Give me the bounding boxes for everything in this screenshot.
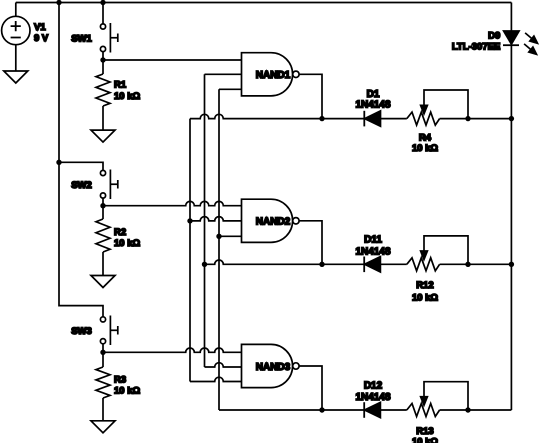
svg-text:10 kΩ: 10 kΩ [412,143,438,154]
svg-text:10 kΩ: 10 kΩ [114,386,140,397]
wire: NAND1 output to row 1 [299,74,322,118]
svg-text:R2: R2 [114,227,126,238]
diode D1 1N4148 [355,89,390,126]
wire: row 3 left [219,409,364,411]
wire: NAND2 input C from x=219 [219,235,242,237]
wire: vertical net NAND2 output (x=204.5) [204,74,206,367]
node: junction x=219 / NAND2 input C [216,234,221,239]
svg-text:10 kΩ: 10 kΩ [114,91,140,102]
wire: NAND3 input C from x=190 with hop [190,377,242,381]
svg-text:1N4148: 1N4148 [355,246,390,257]
svg-text:NAND1: NAND1 [256,70,291,81]
node: SW3 / R3 junction [100,350,105,355]
node: junction NAND3 output / row 3 [319,407,324,412]
svg-text:10 kΩ: 10 kΩ [412,292,438,303]
voltage source V1 9V [2,3,49,72]
wire: R13 to right bus [440,409,512,411]
wire: NAND2 output to row 2 [299,221,322,264]
wire: left bus from top rail down to SW3 branch [59,3,103,317]
svg-text:SW1: SW1 [71,33,92,44]
svg-text:R1: R1 [114,80,127,91]
wire: NAND3 input B from x=204.5 with hop [205,363,242,367]
node: junction row 2 / right bus [509,262,514,267]
svg-text:R3: R3 [114,375,126,386]
op-amp NAND2 gate body [242,199,300,242]
svg-text:SW3: SW3 [71,326,92,337]
wire: NAND1 input B from x=204.5 [205,73,242,75]
resistor R2 10k [96,206,140,276]
svg-text:R12: R12 [416,280,433,291]
wire: R4 to right bus [440,118,512,120]
op-amp NAND3 gate body [242,344,300,387]
svg-text:NAND3: NAND3 [256,362,291,373]
wire: NAND3 output to row 3 [299,366,322,410]
svg-text:D12: D12 [364,380,383,391]
resistor R3 10k [96,352,140,421]
svg-text:10 kΩ: 10 kΩ [114,238,140,249]
node: junction NAND2 output / row 2 [319,262,324,267]
ground: below R2 [91,276,115,288]
resistor R1 10k [96,60,140,130]
ground: below V1 [4,71,28,83]
potentiometer R12 10k [407,236,468,303]
LED D9 LTL-307EE [452,30,538,54]
wire: right bus lower (LED D9 down to row 3) [510,45,512,410]
node: SW1 / R1 junction [100,57,105,62]
wire: left bus branch to SW2 [59,162,103,170]
op-amp NAND1 gate body [242,53,300,96]
wire: vertical net NAND1 output (x=190) [189,119,191,382]
node: junction x=190 / NAND2 input B [187,218,192,223]
svg-text:SW2: SW2 [71,180,92,191]
ground: below R3 [91,421,115,433]
node: junction x=204.5 / row 2 [202,262,207,267]
wire: D11 to R12 [380,263,406,265]
svg-text:1N4148: 1N4148 [355,392,390,403]
node: junction left bus / SW2 branch [56,160,61,165]
wire: row 2 left with hop [205,260,365,264]
svg-text:NAND2: NAND2 [256,217,291,228]
switch SW1 [71,3,118,61]
node: SW2 / R2 junction [100,203,105,208]
switch SW2 [71,170,118,206]
wire: D1 to R4 [381,118,407,120]
ground: below R1 [91,130,115,142]
svg-text:9 V: 9 V [34,33,49,44]
node: junction R13 wiper loop / row 3 [465,407,470,412]
diode D12 1N4148 [355,380,390,417]
wire: SW2 to NAND2 input A with hops [103,201,242,205]
wire: vertical net NAND3 output (x=219) [218,89,220,410]
svg-text:10 kΩ: 10 kΩ [412,436,438,443]
node: junction R12 wiper loop / row 2 [465,262,470,267]
svg-text:V1: V1 [34,22,46,33]
wire: top supply rail [16,2,512,4]
svg-text:D11: D11 [364,235,382,246]
wire: SW1 to NAND1 input A [103,59,242,61]
node: junction NAND1 output / row 1 [319,116,324,121]
wire: NAND2 input B from x=190 with hops [190,217,242,221]
wire: right bus upper (top rail to LED D9) [510,3,512,32]
potentiometer R13 10k [407,382,468,443]
wire: D12 to R13 [380,409,406,411]
svg-text:LTL-307EE: LTL-307EE [452,41,500,52]
switch SW3 [71,316,118,353]
wire: R12 to right bus [440,263,512,265]
wire: SW3 to NAND3 input A with hops [103,348,242,352]
diode D11 1N4148 [355,235,390,272]
wire: NAND1 input C from x=219 [219,88,242,90]
node: junction top rail / SW1 [100,0,105,5]
svg-text:1N4148: 1N4148 [355,99,390,110]
node: junction R4 wiper loop / row 1 [465,116,470,121]
svg-text:D9: D9 [488,30,500,41]
potentiometer R4 10k [407,90,468,154]
node: junction top rail / left bus [56,0,61,5]
node: junction row 1 / right bus [509,116,514,121]
wire: row 1 left with hops [190,114,364,118]
